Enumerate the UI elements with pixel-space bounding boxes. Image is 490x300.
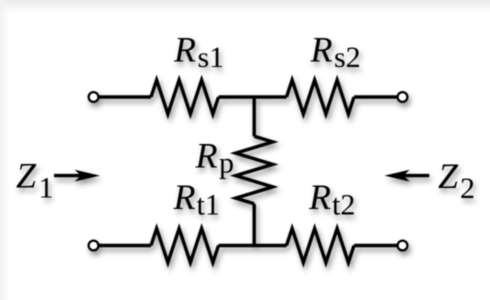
svg-text:s1: s1 [198, 41, 225, 74]
svg-text:Z: Z [16, 156, 37, 196]
svg-text:R: R [195, 136, 218, 176]
svg-text:s2: s2 [334, 41, 361, 74]
svg-text:p: p [219, 147, 234, 180]
svg-text:t2: t2 [332, 189, 355, 222]
svg-text:2: 2 [460, 172, 475, 205]
svg-text:R: R [308, 177, 331, 217]
svg-text:R: R [173, 30, 196, 70]
svg-text:t1: t1 [197, 189, 220, 222]
svg-text:R: R [310, 30, 333, 70]
svg-text:R: R [173, 177, 196, 217]
svg-text:Z: Z [438, 156, 459, 196]
svg-text:1: 1 [39, 172, 54, 205]
